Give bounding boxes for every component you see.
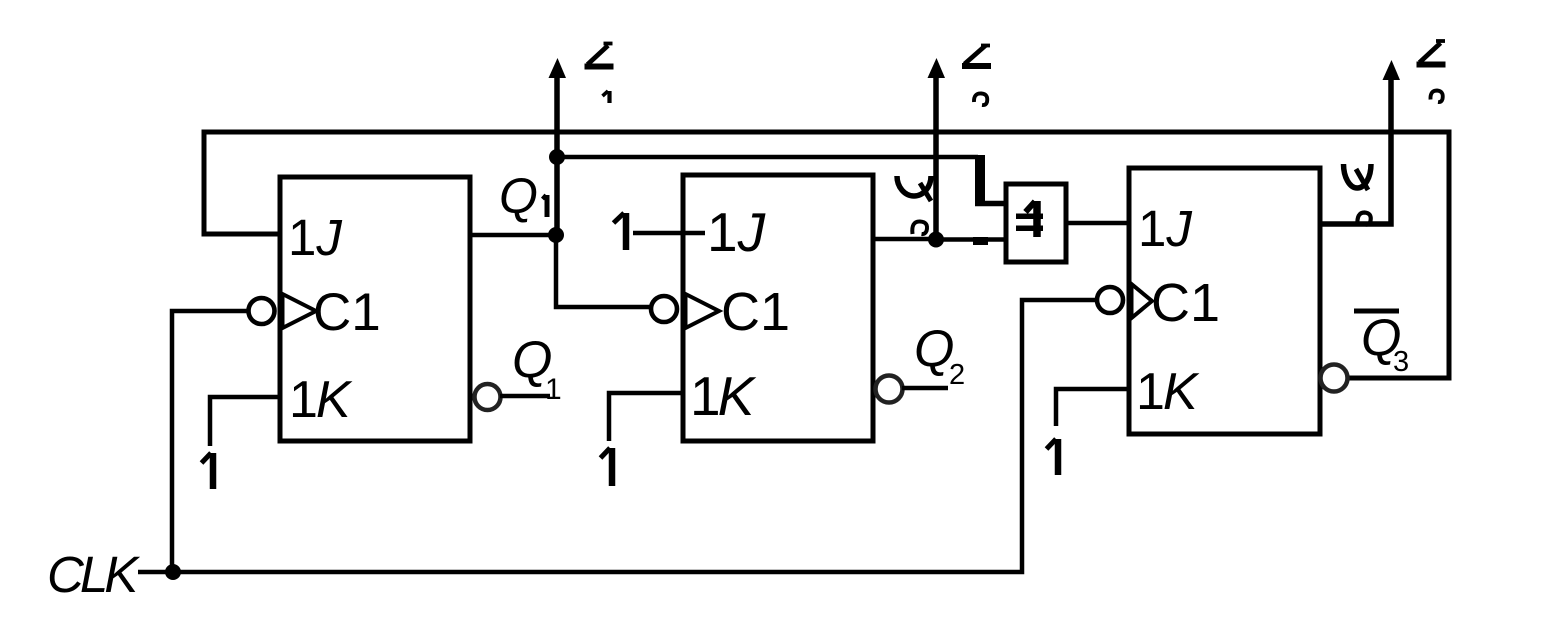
Z2 arrowhead [928, 58, 946, 78]
Z3 arrowhead [1383, 60, 1401, 80]
wire constant 1 to 1K of U3 [1056, 389, 1129, 426]
wire CLK to clock of U1 [172, 311, 250, 572]
flip-flop U3 body [1129, 168, 1320, 434]
svg-text:1J: 1J [288, 209, 342, 266]
wire net Q1 from U1 output to node A [470, 233, 556, 238]
svg-text:3: 3 [1393, 346, 1409, 378]
svg-text:1K: 1K [1136, 363, 1200, 421]
svg-text:1: 1 [545, 373, 562, 406]
wire overlap blob on Q2 wire [973, 237, 988, 245]
svg-text:C1: C1 [721, 282, 790, 342]
node D junction dot on CLK [165, 564, 181, 580]
flip-flop U1 body [280, 177, 470, 441]
wire Q̄1 stub [500, 394, 550, 399]
clock dynamic-indicator triangle of U2 [686, 294, 720, 328]
label subscript 2 of Z2 (clipped) [974, 93, 987, 105]
wire net G1 output to 1J of U3 [1066, 221, 1129, 226]
constant 1 at 1K of U1 [210, 453, 217, 489]
flip-flop U2 body [683, 175, 873, 441]
node A junction dot (Q1 output) [548, 227, 564, 243]
XOR gate G1 label =1 [1033, 201, 1041, 237]
constant 1 at 1J of U2 [623, 213, 630, 250]
wire B net Q1 to upper input of G1 [557, 155, 978, 160]
wire CLK stub [138, 570, 172, 575]
label Z2 (clipped) above arrow 2 [962, 46, 991, 67]
clock inversion bubble of U3 [1097, 287, 1123, 313]
clock dynamic-indicator triangle of U1 [283, 294, 317, 328]
label Q3 clipped at U3 output (top) [1344, 164, 1372, 188]
label Q2 clipped at U2 output (top) [897, 176, 931, 196]
wire net Q3 from U3 output to Z3 arrow [1320, 77, 1391, 224]
clock inversion bubble of U1 [249, 298, 275, 324]
label Z1 (clipped) above arrow 1 [585, 44, 614, 67]
output inversion bubble Q̄2 of U2 [876, 376, 903, 403]
wire CLK run to clock riser of U3 [173, 300, 1097, 572]
Z1 arrowhead [549, 58, 567, 78]
svg-text:Q: Q [499, 168, 538, 224]
label subscript 3 of Z3 (clipped) [1430, 91, 1442, 103]
svg-text:2: 2 [949, 359, 965, 391]
label Z3 (clipped) above arrow 3 [1417, 41, 1446, 65]
svg-text:1K: 1K [289, 371, 353, 429]
XOR gate G1 body [1006, 184, 1066, 262]
node C junction dot (Q2 output) [928, 232, 944, 248]
constant 1 at 1K of U3 [1055, 439, 1062, 475]
wire Q̄2 stub [902, 386, 948, 391]
wire Z2 arrow shaft [933, 74, 939, 242]
label subscript 1 of Z1 [607, 91, 611, 103]
wire net Q1 branch down to clock of U2 [556, 235, 652, 307]
node B junction dot (Q1 to wire B) [549, 149, 565, 165]
clock dynamic-indicator triangle of U3 [1132, 284, 1153, 318]
svg-text:CLK: CLK [47, 546, 140, 603]
wire constant 1 to 1K of U2 [609, 393, 683, 441]
svg-text:1J: 1J [707, 201, 766, 263]
wire net Q2 to lower input of G1 [936, 237, 1006, 242]
wire feedback net Q̄3 to 1J of U1 (stub, riser, top run, drop to J) [204, 132, 1449, 378]
svg-text:C1: C1 [313, 283, 381, 342]
clock inversion bubble of U2 [651, 296, 677, 322]
wire Z1 arrow shaft [554, 74, 560, 237]
wire constant 1 to 1K of U1 [210, 397, 280, 446]
svg-text:1K: 1K [690, 365, 757, 427]
constant 1 at 1K of U2 [609, 448, 616, 486]
output inversion bubble Q̄3 of U3 [1321, 365, 1348, 392]
svg-text:1J: 1J [1138, 200, 1192, 257]
svg-text:C1: C1 [1151, 273, 1220, 333]
output inversion bubble Q̄1 of U1 [475, 384, 501, 410]
wire constant 1 to 1J of U2 [633, 231, 705, 236]
wire net Q2 from U2 output to node C [873, 237, 936, 242]
